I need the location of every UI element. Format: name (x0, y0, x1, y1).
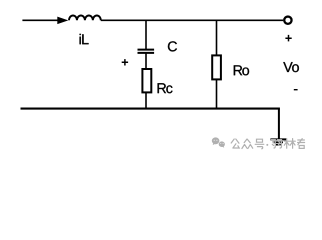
label + output polarity (285, 35, 291, 42)
dot (266, 144, 268, 146)
label - output polarity (294, 89, 298, 91)
label Ro (234, 65, 249, 75)
label iL (80, 34, 89, 44)
inductor L (69, 15, 101, 20)
resistor Rc (142, 69, 151, 92)
watermark text gongzhonghao yulinjun (231, 139, 304, 149)
zhong (242, 139, 253, 149)
capacitor C plate top (138, 49, 155, 51)
label + capacitor polarity (122, 59, 128, 65)
wire Rc to bottom rail (145, 92, 147, 109)
label Vo (283, 62, 299, 72)
gong (231, 139, 239, 148)
wire capacitor to Rc (145, 53, 147, 69)
arrowhead current direction (57, 17, 68, 25)
yu (271, 140, 281, 148)
wire Ro branch top (216, 20, 218, 55)
wire capacitor branch top (145, 20, 147, 49)
wire bottom rail (21, 108, 280, 110)
wire ground drop (278, 109, 280, 140)
wire input segment (22, 19, 58, 21)
label C (168, 41, 177, 51)
ground (270, 139, 286, 144)
resistor Ro (212, 55, 221, 79)
jun (298, 139, 305, 149)
wire top rail (101, 19, 283, 21)
label Rc (158, 83, 173, 93)
terminal + output (284, 17, 291, 24)
lin (284, 139, 295, 149)
watermark wechat icon (212, 137, 225, 147)
capacitor C plate bottom (138, 52, 155, 54)
hao (255, 139, 264, 149)
wire Ro to bottom rail (216, 79, 218, 109)
